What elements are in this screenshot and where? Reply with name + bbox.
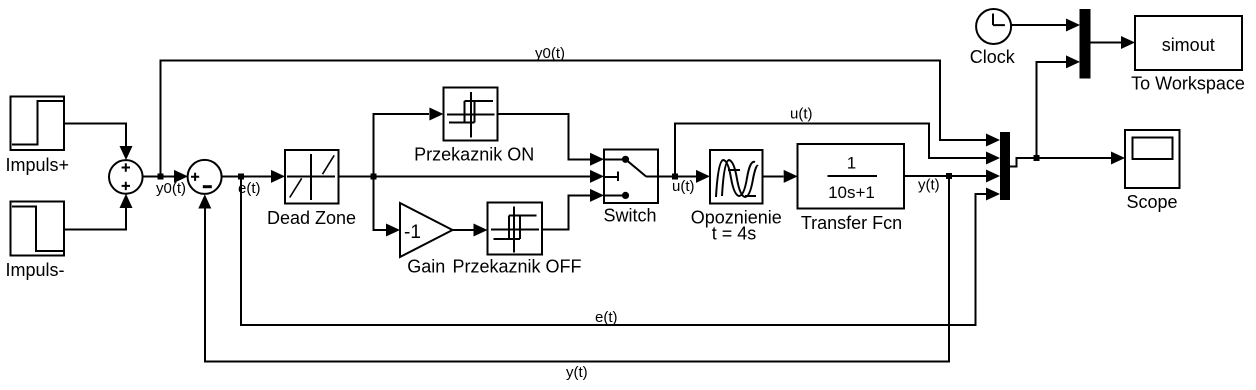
- svg-text:Dead Zone: Dead Zone: [267, 208, 356, 228]
- svg-text:y(t): y(t): [918, 177, 940, 194]
- svg-text:u(t): u(t): [790, 106, 813, 123]
- svg-text:Switch: Switch: [603, 206, 656, 226]
- svg-text:1: 1: [847, 154, 856, 173]
- svg-text:t = 4s: t = 4s: [712, 224, 757, 244]
- svg-text:Gain: Gain: [407, 257, 445, 277]
- svg-text:e(t): e(t): [595, 309, 618, 326]
- svg-text:y0(t): y0(t): [156, 180, 186, 197]
- svg-text:Impuls+: Impuls+: [6, 155, 70, 175]
- svg-text:Przekaznik ON: Przekaznik ON: [414, 145, 534, 165]
- svg-text:y(t): y(t): [566, 364, 588, 381]
- svg-text:Przekaznik OFF: Przekaznik OFF: [452, 257, 581, 277]
- svg-text:u(t): u(t): [672, 178, 695, 195]
- svg-text:Transfer Fcn: Transfer Fcn: [801, 213, 902, 233]
- svg-text:e(t): e(t): [238, 180, 261, 197]
- svg-text:Scope: Scope: [1126, 192, 1177, 212]
- svg-text:y0(t): y0(t): [535, 45, 565, 62]
- svg-text:To Workspace: To Workspace: [1131, 74, 1245, 94]
- svg-text:Impuls-: Impuls-: [5, 260, 64, 280]
- svg-text:simout: simout: [1162, 35, 1215, 55]
- svg-text:-1: -1: [404, 222, 421, 243]
- svg-text:10s+1: 10s+1: [828, 183, 875, 202]
- svg-text:Clock: Clock: [970, 47, 1016, 67]
